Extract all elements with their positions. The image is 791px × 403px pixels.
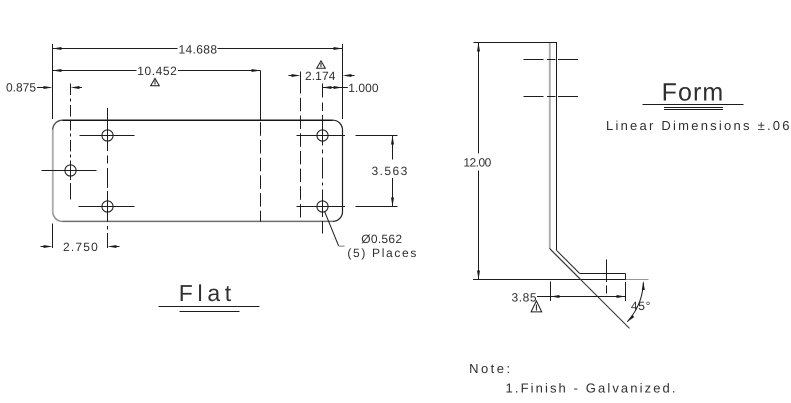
angle dimension 45 bbox=[627, 281, 651, 322]
hole H3 bbox=[79, 201, 135, 212]
dimension 0.875 bbox=[6, 80, 82, 94]
svg-text:14.688: 14.688 bbox=[179, 42, 218, 56]
svg-text:1.Finish - Galvanized.: 1.Finish - Galvanized. bbox=[506, 381, 676, 396]
dimension 2.750 bbox=[41, 224, 120, 255]
centerline right hole column x=322.5 bbox=[322, 103, 324, 234]
bend outer bbox=[550, 248, 581, 279]
svg-text:2.750: 2.750 bbox=[63, 240, 98, 254]
plate outline black (top, right, fillets) bbox=[53, 120, 343, 221]
dimension 1.000 bbox=[323, 81, 379, 98]
svg-text:Linear Dimensions ±.06: Linear Dimensions ±.06 bbox=[606, 118, 790, 133]
hole H2 bbox=[80, 130, 135, 141]
svg-text:1.000: 1.000 bbox=[348, 81, 379, 95]
svg-text:3.563: 3.563 bbox=[372, 164, 408, 178]
title Form bbox=[643, 78, 744, 109]
flag note triangle B bbox=[317, 61, 326, 68]
flag note triangle A bbox=[151, 78, 160, 85]
bend line BL1 bbox=[260, 71, 262, 222]
bend line BL2 bbox=[300, 72, 302, 222]
hole H1 bbox=[42, 165, 97, 176]
hole H4 bbox=[297, 130, 346, 141]
dimension 12.00 bbox=[463, 43, 491, 280]
dimension 14.688 bbox=[53, 42, 343, 119]
flag note triangle C bbox=[531, 301, 542, 312]
svg-text:10.452: 10.452 bbox=[137, 64, 177, 78]
form leg outer edge gray bbox=[549, 43, 551, 249]
title Flat bbox=[159, 280, 260, 312]
svg-text:45°: 45° bbox=[631, 299, 651, 313]
centerline hole H1 vertical x=70.5 bbox=[70, 84, 72, 200]
hole H5 bbox=[297, 201, 346, 212]
leader hole callout bbox=[325, 211, 417, 260]
bottom extension / baseline bbox=[473, 279, 649, 281]
form leg inner edge bbox=[556, 43, 558, 251]
flange bottom bbox=[581, 279, 626, 281]
centerline hole column x=107.5 bbox=[107, 108, 109, 248]
tolerance note bbox=[606, 118, 790, 133]
flange end cap bbox=[625, 274, 627, 280]
svg-text:0.875: 0.875 bbox=[6, 80, 36, 94]
svg-text:Form: Form bbox=[662, 78, 724, 106]
45 deg reference line bbox=[551, 250, 630, 329]
dimension 2.174 bbox=[289, 69, 355, 93]
leg centerline mark upper bbox=[524, 59, 579, 61]
svg-text:2.174: 2.174 bbox=[305, 69, 336, 83]
leg centerline mark lower bbox=[524, 96, 579, 98]
svg-text:3.85: 3.85 bbox=[512, 290, 537, 304]
bend inner bbox=[557, 250, 580, 273]
plate outline gray (left, bottom) bbox=[53, 130, 333, 222]
svg-text:(5) Places: (5) Places bbox=[347, 246, 416, 260]
flange top bbox=[580, 273, 626, 275]
svg-text:Ø0.562: Ø0.562 bbox=[361, 232, 402, 246]
flange centerline bbox=[606, 260, 608, 294]
dimension 3.563 bbox=[356, 136, 408, 207]
svg-text:12.00: 12.00 bbox=[463, 156, 491, 170]
notes bbox=[469, 361, 675, 396]
dimension 3.85 bbox=[512, 282, 626, 305]
form top edge + 12.00 top extension bbox=[474, 42, 558, 44]
dimension 10.452 bbox=[53, 64, 261, 78]
